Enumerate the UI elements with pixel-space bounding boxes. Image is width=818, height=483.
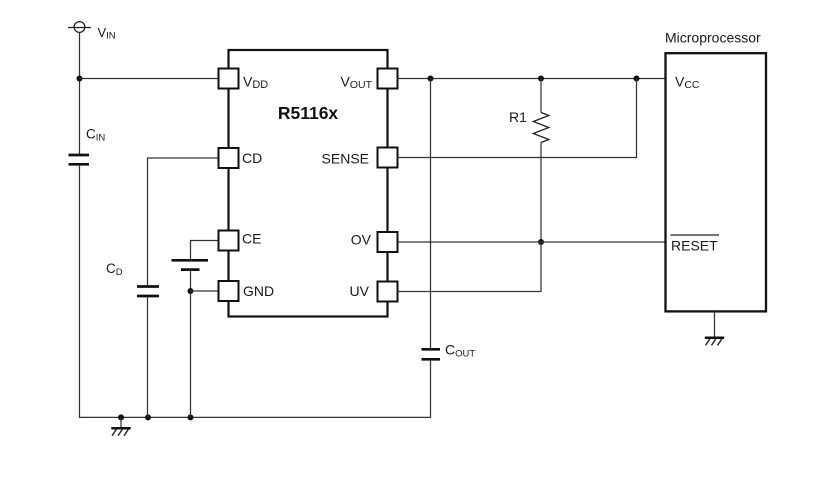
svg-text:RESET: RESET bbox=[671, 238, 718, 254]
wire bottom ground rail bbox=[79, 416, 431, 418]
wire OV to RESET bbox=[398, 241, 666, 243]
wire CD cap to bottom rail bbox=[147, 297, 149, 417]
wire CE pin to battery symbol bbox=[191, 241, 219, 260]
pin VDD bbox=[219, 69, 239, 89]
microprocessor box bbox=[666, 53, 767, 311]
wire VIN rail upper bbox=[79, 32, 81, 154]
terminal VIN bbox=[68, 22, 91, 33]
svg-text:SENSE: SENSE bbox=[322, 151, 369, 167]
wire R1 top lead bbox=[540, 79, 542, 113]
svg-text:CE: CE bbox=[242, 231, 261, 247]
IC body R5116x bbox=[229, 50, 388, 317]
capacitor CIN bbox=[69, 155, 90, 164]
junction dot SENSE tap bbox=[634, 76, 640, 82]
junction dot node VDD branch bbox=[77, 76, 83, 82]
svg-text:CD: CD bbox=[242, 150, 262, 166]
ground symbol microprocessor bbox=[705, 311, 724, 345]
junction dot GND node bbox=[188, 288, 194, 294]
pin OV bbox=[378, 232, 398, 252]
pin UV bbox=[378, 282, 398, 302]
wire GND node to GND pin bbox=[191, 290, 219, 292]
wire R1 bottom lead down to OV line bbox=[540, 143, 542, 243]
junction dot R1/UV on OV line bbox=[538, 239, 544, 245]
battery cell symbol at CE bbox=[172, 260, 209, 269]
wire CD pin to capacitor CD bbox=[148, 158, 219, 285]
pin SENSE bbox=[378, 148, 398, 168]
pin CD bbox=[219, 148, 239, 168]
junction dot CD cap on rail bbox=[145, 414, 151, 420]
wire to VDD pin bbox=[80, 78, 219, 80]
pin VOUT bbox=[378, 69, 398, 89]
wire UV up to OV line bbox=[398, 242, 542, 292]
svg-text:Microprocessor: Microprocessor bbox=[665, 30, 761, 46]
wire battery to GND node bbox=[190, 271, 192, 418]
ground symbol left bbox=[111, 417, 130, 435]
svg-text:OV: OV bbox=[351, 232, 372, 248]
capacitor CD bbox=[137, 287, 159, 297]
svg-text:R5116x: R5116x bbox=[278, 103, 339, 123]
junction dot COUT tap bbox=[428, 76, 434, 82]
junction dot CE/GND line on rail bbox=[188, 414, 194, 420]
pin CE bbox=[219, 231, 239, 251]
junction dot R1 top bbox=[538, 76, 544, 82]
wire CIN to bottom rail bbox=[79, 165, 81, 418]
capacitor COUT bbox=[422, 349, 441, 359]
wire VOUT to VCC bbox=[398, 78, 666, 80]
svg-text:R1: R1 bbox=[509, 109, 527, 125]
svg-text:UV: UV bbox=[350, 283, 370, 299]
wire COUT to bottom rail bbox=[430, 360, 432, 418]
pin GND bbox=[219, 281, 239, 301]
wire SENSE to VOUT line bbox=[398, 79, 637, 158]
resistor R1 bbox=[533, 113, 549, 143]
junction dot ground tap bbox=[118, 414, 124, 420]
wire VOUT down to COUT bbox=[430, 79, 432, 349]
svg-text:GND: GND bbox=[243, 283, 274, 299]
